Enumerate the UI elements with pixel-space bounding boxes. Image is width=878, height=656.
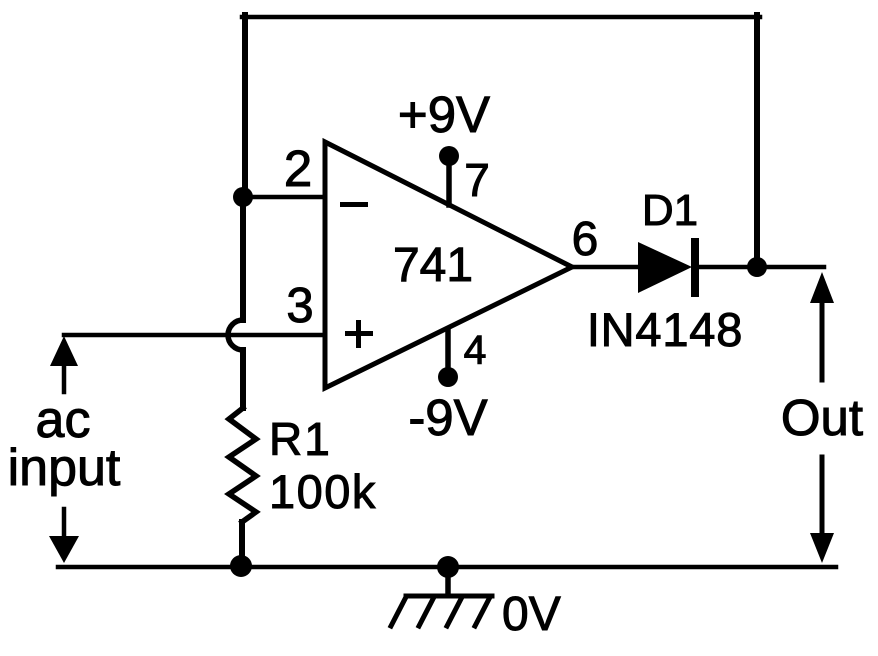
arrow Out up stem (820, 300, 825, 380)
node pin7 terminal (439, 146, 459, 166)
wire diode to output node (695, 265, 824, 270)
svg-text:+9V: +9V (398, 86, 490, 143)
wire crossover hop at pin3 line (228, 320, 243, 350)
svg-text:0V: 0V (502, 588, 561, 641)
wire feedback top horizontal (242, 15, 760, 20)
arrow ac input up head (50, 336, 78, 366)
svg-text:100k: 100k (269, 465, 377, 518)
arrow Out down head (810, 533, 834, 563)
diode D1 (638, 242, 692, 293)
diode D1 cathode bar (691, 238, 699, 297)
svg-text:input: input (8, 439, 121, 497)
resistor R1 zigzag (229, 408, 256, 522)
wire resistor bottom lead (239, 522, 245, 566)
svg-text:D1: D1 (642, 186, 698, 235)
arrow ac input down stem (62, 509, 67, 537)
node bottom left junction (230, 555, 252, 577)
node ground junction (437, 556, 459, 578)
wire pin 4 stub (445, 330, 451, 372)
arrow ac input down head (49, 536, 79, 563)
svg-text:IN4148: IN4148 (587, 303, 743, 356)
wire feedback right vertical (754, 15, 760, 267)
op-amp minus sign (340, 202, 368, 207)
wire left vertical to resistor (240, 350, 246, 408)
wire bottom rail (58, 565, 836, 570)
svg-text:-9V: -9V (408, 389, 487, 446)
wire feedback left vertical (242, 15, 248, 197)
wire op-amp output to diode (572, 265, 638, 270)
svg-text:R1: R1 (269, 413, 332, 465)
svg-text:7: 7 (464, 154, 490, 206)
wire pin 3 input (64, 333, 325, 338)
svg-text:3: 3 (286, 279, 313, 333)
ground stub (445, 567, 451, 595)
op-amp plus sign (345, 331, 373, 336)
svg-text:741: 741 (393, 239, 473, 292)
ground symbol (391, 596, 492, 626)
op-amp U1 741 triangle (325, 142, 572, 388)
svg-text:6: 6 (572, 213, 599, 266)
node pin2 junction (233, 187, 253, 207)
wire left vertical upper segment (240, 197, 246, 320)
wire pin 7 stub (446, 160, 452, 205)
arrow Out up head (810, 272, 834, 303)
svg-text:2: 2 (284, 140, 312, 197)
svg-text:Out: Out (781, 389, 863, 446)
node output junction (747, 257, 767, 277)
wire pin 2 input (243, 195, 325, 200)
node pin4 terminal (438, 367, 458, 387)
svg-text:4: 4 (464, 327, 487, 373)
arrow ac input up stem (62, 364, 67, 392)
arrow Out down stem (820, 457, 825, 535)
